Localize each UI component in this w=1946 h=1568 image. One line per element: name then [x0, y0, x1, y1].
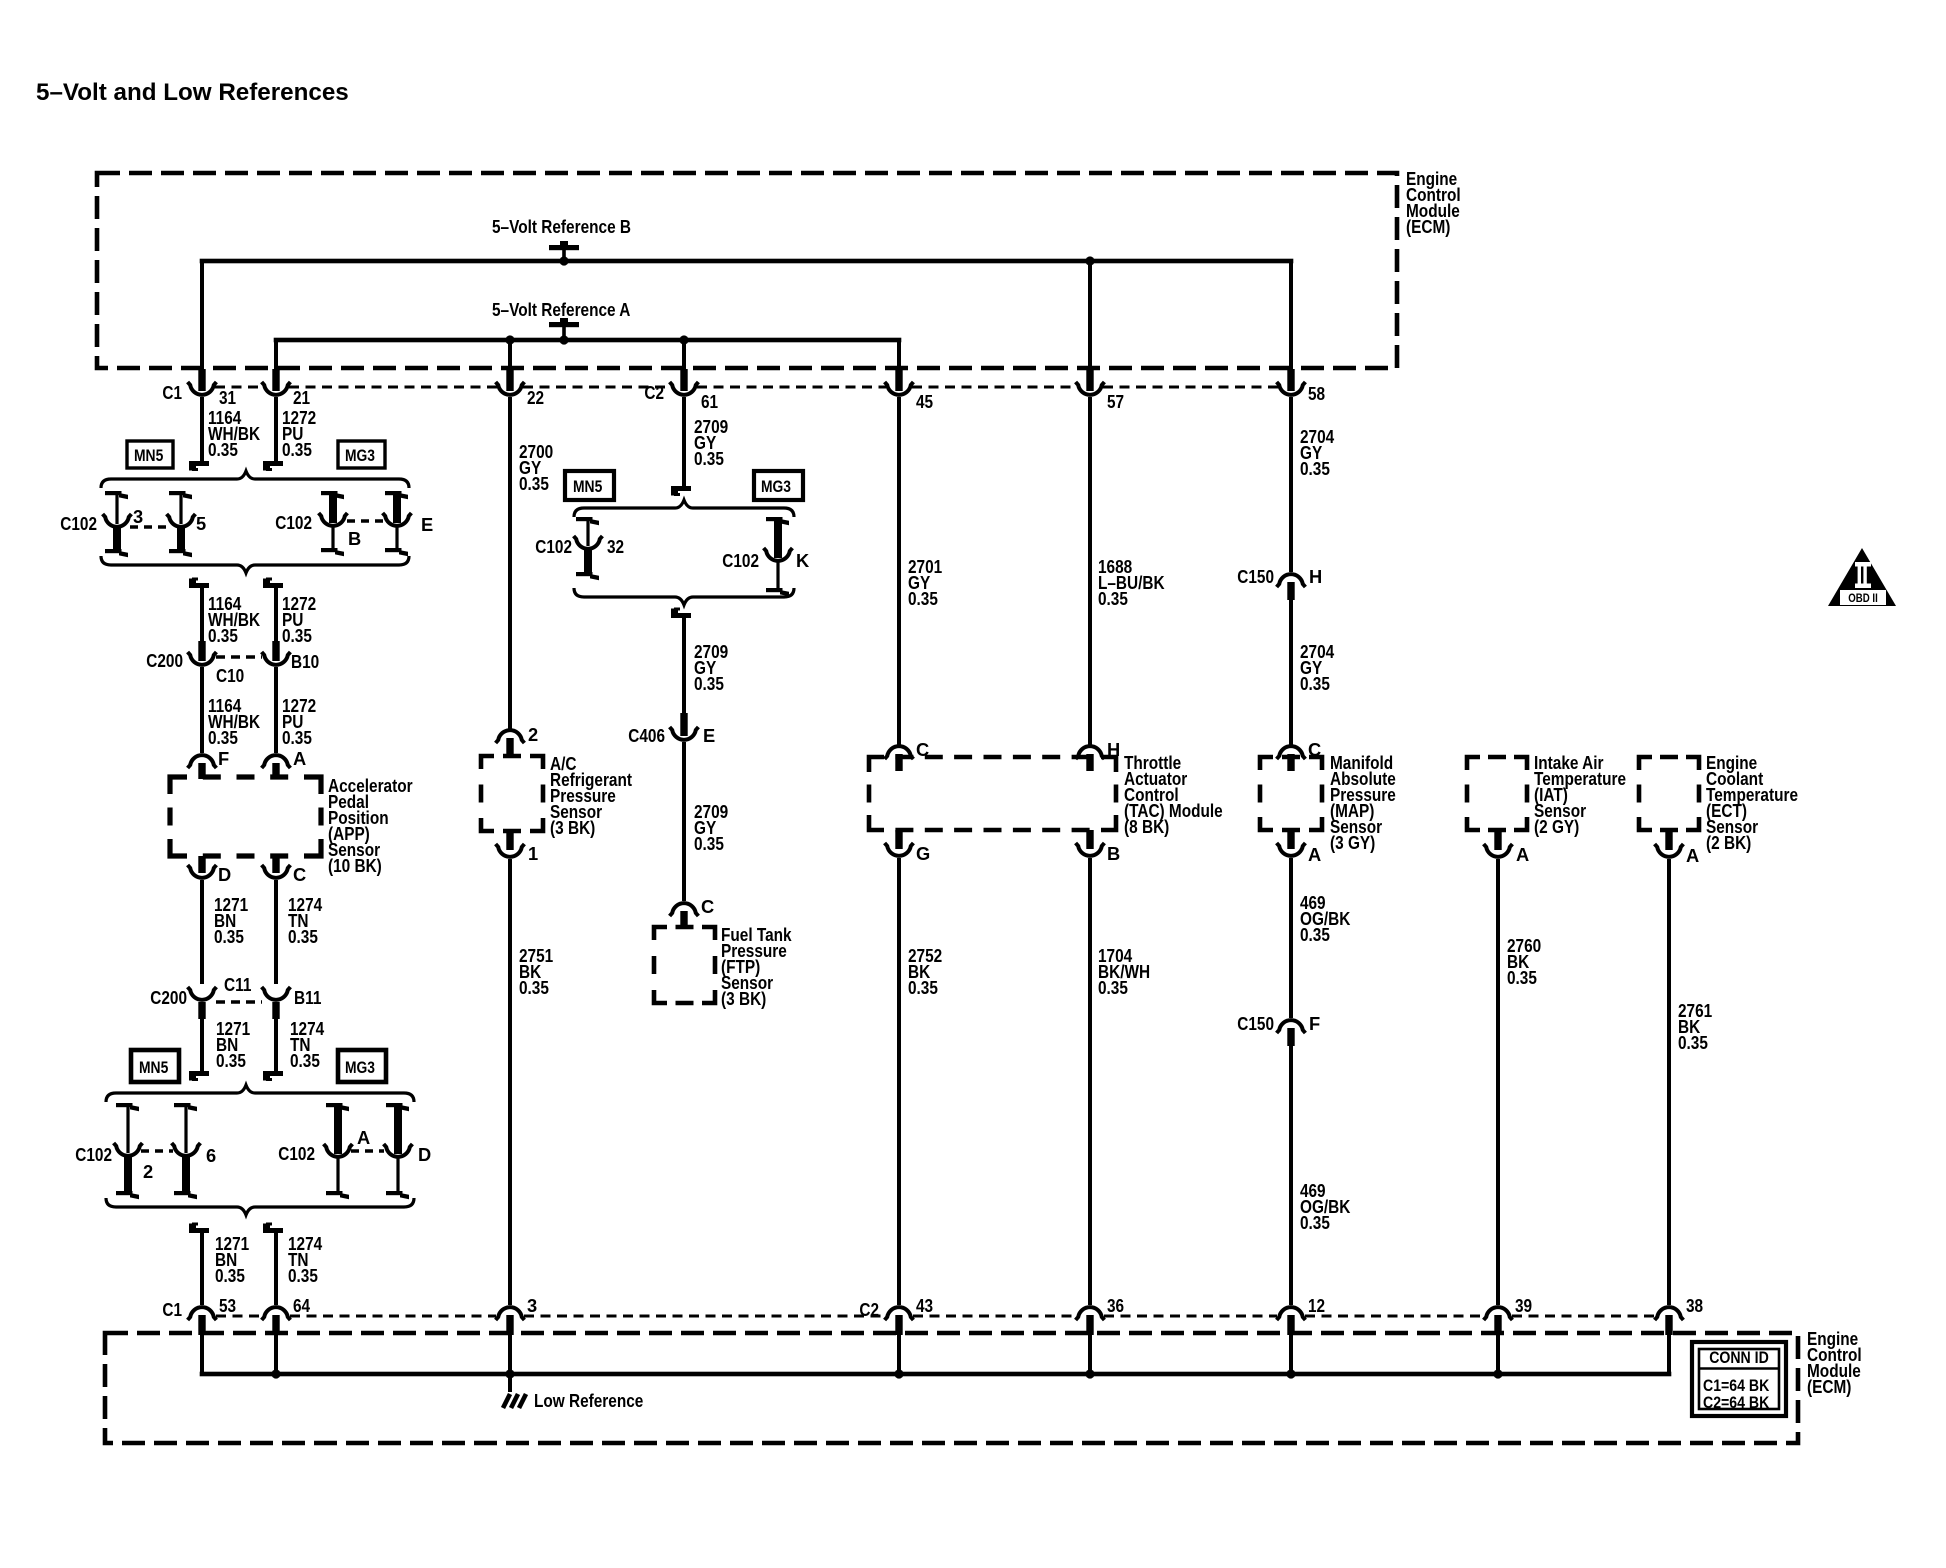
- wire 2704 to MAP sensor: [1289, 600, 1293, 745]
- svg-text:38: 38: [1686, 1295, 1703, 1316]
- APP sensor pin D terminal: [198, 856, 205, 873]
- svg-text:C150: C150: [1237, 566, 1274, 587]
- intake air temperature sensor box: [1467, 757, 1527, 830]
- APP sensor pin F terminal: [188, 755, 217, 768]
- svg-text:C102: C102: [60, 513, 97, 534]
- junction on ref B at wire 57: [1085, 256, 1094, 265]
- svg-text:C406: C406: [628, 725, 665, 746]
- svg-text:53: 53: [219, 1295, 236, 1316]
- wire: ref B drop to pin 57: [1088, 261, 1092, 371]
- ECM pin 61 terminal (top): [680, 369, 687, 391]
- wire 2709 below C102 group: [671, 613, 691, 618]
- ECM C1/C2 connector face (dotted line, top): [215, 386, 263, 389]
- svg-text:E: E: [421, 514, 433, 535]
- svg-text:0.35: 0.35: [1300, 924, 1330, 945]
- svg-text:C2=64 BK: C2=64 BK: [1703, 1393, 1769, 1412]
- ECM pin 53 terminal (bottom): [188, 1307, 217, 1320]
- wire 1272 from pin 21: [274, 397, 278, 461]
- svg-text:OBD II: OBD II: [1848, 593, 1878, 605]
- ECM pin 39 terminal (bottom): [1484, 1307, 1513, 1320]
- IAT sensor pin A terminal: [1494, 830, 1501, 850]
- ECM C1/C2 connector face (dotted line, bottom): [216, 1315, 262, 1318]
- svg-text:C150: C150: [1237, 1013, 1274, 1034]
- svg-text:C2: C2: [644, 382, 664, 403]
- svg-text:(2 GY): (2 GY): [1534, 816, 1579, 837]
- svg-text:0.35: 0.35: [694, 673, 724, 694]
- svg-text:3: 3: [133, 506, 143, 527]
- TAC module pin B terminal: [1086, 830, 1093, 849]
- svg-text:C102: C102: [722, 550, 759, 571]
- svg-text:0.35: 0.35: [282, 439, 312, 460]
- C102 pass-through terminal pin 6: [174, 1103, 191, 1107]
- connector group brace (bottom, C102 upper): [101, 556, 409, 573]
- svg-text:0.35: 0.35: [208, 727, 238, 748]
- wire 1274 to lower C102 group: [274, 1019, 278, 1071]
- wire 469 from MAP pin A: [1289, 858, 1293, 1018]
- wire 1164 below C102 group: [189, 583, 209, 588]
- svg-text:12: 12: [1308, 1295, 1325, 1316]
- wire 1164 to APP sensor: [200, 667, 204, 753]
- svg-text:(3 GY): (3 GY): [1330, 832, 1375, 853]
- ECM pin 38 terminal (bottom): [1655, 1307, 1684, 1320]
- svg-text:0.35: 0.35: [288, 926, 318, 947]
- svg-text:C1: C1: [162, 1299, 182, 1320]
- wire 2700 from pin 22: [508, 397, 512, 729]
- svg-text:(10 BK): (10 BK): [328, 855, 382, 876]
- ECM module box (top): [97, 173, 1397, 368]
- svg-text:B10: B10: [291, 651, 319, 672]
- connector group brace (top, C102 upper): [101, 471, 409, 488]
- svg-text:64: 64: [293, 1295, 311, 1316]
- wire 1274 from APP pin C: [274, 880, 278, 984]
- fuel tank pressure sensor box: [654, 927, 715, 1003]
- ECM pin 31 terminal (top): [198, 369, 205, 391]
- svg-text:C1: C1: [162, 382, 182, 403]
- wire: low reference bus: [200, 1372, 1672, 1377]
- svg-text:CONN ID: CONN ID: [1709, 1348, 1769, 1367]
- svg-text:MG3: MG3: [345, 1059, 375, 1077]
- svg-text:36: 36: [1107, 1295, 1124, 1316]
- wire 2704 from pin 58: [1289, 397, 1293, 572]
- wire 2751 from A/C sensor: [508, 859, 512, 1305]
- svg-text:0.35: 0.35: [1300, 458, 1330, 479]
- harness code box MG3 (lower): [338, 1050, 386, 1082]
- C102 pin B link: [347, 519, 384, 522]
- svg-text:C10: C10: [216, 665, 244, 686]
- A/C sensor pin 1 terminal: [506, 831, 513, 850]
- wire: ref B drop to pin 31: [200, 261, 204, 371]
- svg-text:C: C: [293, 864, 306, 885]
- svg-text:(ECM): (ECM): [1807, 1376, 1851, 1397]
- svg-text:MN5: MN5: [139, 1059, 168, 1077]
- connector C406 pin E terminal: [680, 713, 687, 736]
- svg-text:Low Reference: Low Reference: [534, 1390, 643, 1411]
- svg-text:(2 BK): (2 BK): [1706, 832, 1751, 853]
- wire: ref A drop to pin 21: [274, 340, 278, 371]
- connector C200 pin B10 terminal: [272, 641, 279, 661]
- harness code box MN5: [127, 441, 173, 468]
- C102 pin 2 link: [141, 1149, 173, 1152]
- svg-text:0.35: 0.35: [519, 473, 549, 494]
- connector C150 pin H terminal: [1277, 574, 1306, 587]
- APP sensor pin C terminal: [272, 856, 279, 873]
- wire: ref A drop to pin 22: [508, 340, 512, 371]
- svg-text:F: F: [1309, 1013, 1320, 1034]
- svg-text:0.35: 0.35: [282, 625, 312, 646]
- svg-text:32: 32: [607, 536, 624, 557]
- C102 pass-through terminal pin 32: [576, 517, 593, 521]
- connector C200 pin C11 terminal: [188, 987, 217, 1000]
- svg-text:31: 31: [219, 387, 236, 408]
- harness code box MN5 (lower): [131, 1050, 179, 1082]
- ECM pin 21 terminal (top): [272, 369, 279, 391]
- svg-text:0.35: 0.35: [1300, 673, 1330, 694]
- MAP sensor pin A terminal: [1287, 830, 1294, 849]
- svg-text:0.35: 0.35: [290, 1050, 320, 1071]
- wire from pin 39 to low reference bus: [1496, 1334, 1500, 1374]
- harness code box MN5 (middle): [565, 471, 614, 500]
- connector C200 pin C10-left terminal: [198, 641, 205, 661]
- wire 1688 from pin 57: [1088, 397, 1092, 745]
- connector group brace (top, C102 middle): [574, 500, 794, 517]
- wire 2761 from ECT sensor: [1667, 859, 1671, 1305]
- svg-text:C200: C200: [150, 987, 187, 1008]
- wire 1271 to ECM pin 53: [189, 1228, 209, 1233]
- svg-text:D: D: [218, 864, 231, 885]
- svg-text:2: 2: [143, 1161, 153, 1182]
- connector group brace (bottom, C102 lower): [106, 1198, 414, 1215]
- svg-text:0.35: 0.35: [1507, 967, 1537, 988]
- svg-text:5–Volt Reference A: 5–Volt Reference A: [492, 299, 630, 320]
- C102 pass-through terminal pin K: [766, 517, 783, 521]
- connector C150 pin F terminal: [1277, 1020, 1306, 1033]
- svg-text:2: 2: [528, 724, 538, 745]
- C102 pass-through terminal pin D: [386, 1103, 403, 1107]
- wire 2760 from IAT sensor: [1496, 859, 1500, 1305]
- svg-text:A: A: [1308, 844, 1321, 865]
- C200 C10 link: [216, 655, 262, 658]
- wire 2709 from pin 61: [682, 397, 686, 486]
- svg-text:MN5: MN5: [134, 447, 163, 465]
- wire from pin 43 to low reference bus: [897, 1334, 901, 1374]
- svg-text:D: D: [418, 1144, 431, 1165]
- svg-text:5–Volt and Low References: 5–Volt and Low References: [36, 79, 349, 106]
- wire from pin 64 to low reference bus: [274, 1334, 278, 1374]
- svg-text:(3 BK): (3 BK): [550, 817, 595, 838]
- wire 2709 to FTP sensor: [682, 742, 686, 901]
- svg-text:MN5: MN5: [573, 478, 602, 496]
- svg-text:0.35: 0.35: [216, 1050, 246, 1071]
- svg-text:MG3: MG3: [761, 478, 791, 496]
- svg-text:5: 5: [196, 513, 206, 534]
- wire from pin 12 to low reference bus: [1289, 1334, 1293, 1374]
- svg-text:6: 6: [206, 1145, 216, 1166]
- svg-text:5–Volt Reference B: 5–Volt Reference B: [492, 216, 631, 237]
- svg-text:1: 1: [528, 843, 538, 864]
- svg-text:45: 45: [916, 391, 933, 412]
- ECM pin 36 terminal (bottom): [1076, 1307, 1105, 1320]
- A/C sensor pin 2 terminal: [496, 730, 525, 743]
- TAC module pin C terminal: [885, 746, 914, 759]
- wire 2701 from pin 45: [897, 397, 901, 745]
- svg-text:K: K: [796, 550, 810, 571]
- svg-text:0.35: 0.35: [694, 448, 724, 469]
- wire from pin 3 to low reference bus: [508, 1334, 512, 1392]
- svg-text:C102: C102: [278, 1143, 315, 1164]
- wire: 5-Volt Reference B bus: [200, 259, 1294, 264]
- harness code box MG3 (middle): [754, 471, 803, 500]
- connector group brace (bottom, C102 middle): [574, 588, 794, 605]
- C102 pass-through terminal pin B: [321, 491, 338, 495]
- reference A tap symbol: [560, 318, 568, 323]
- wire 469 to ECM pin 12: [1289, 1046, 1293, 1305]
- APP sensor box: [170, 777, 321, 856]
- svg-text:A: A: [1686, 845, 1699, 866]
- ECM pin 57 terminal (top): [1086, 369, 1093, 391]
- svg-text:0.35: 0.35: [214, 926, 244, 947]
- ECM pin 64 terminal (bottom): [262, 1307, 291, 1320]
- wire from pin 53 to low reference bus: [200, 1334, 204, 1374]
- svg-text:0.35: 0.35: [1098, 588, 1128, 609]
- wire 1272 below C102 group: [263, 583, 283, 588]
- svg-text:A: A: [293, 748, 306, 769]
- svg-text:0.35: 0.35: [208, 625, 238, 646]
- svg-text:22: 22: [527, 387, 544, 408]
- svg-text:0.35: 0.35: [1098, 977, 1128, 998]
- engine coolant temperature sensor box: [1639, 757, 1699, 830]
- svg-text:G: G: [916, 843, 930, 864]
- wire 1271 to lower C102 group: [200, 1019, 204, 1071]
- svg-text:58: 58: [1308, 383, 1325, 404]
- MAP sensor pin C terminal: [1277, 746, 1306, 759]
- svg-text:61: 61: [701, 391, 718, 412]
- svg-text:0.35: 0.35: [282, 727, 312, 748]
- svg-text:A: A: [357, 1127, 370, 1148]
- svg-text:43: 43: [916, 1295, 933, 1316]
- TAC module pin G terminal: [895, 830, 902, 849]
- svg-text:57: 57: [1107, 391, 1124, 412]
- svg-text:3: 3: [527, 1295, 537, 1316]
- svg-text:C: C: [701, 896, 714, 917]
- wire: ref B drop to pin 58: [1289, 261, 1293, 371]
- C102 pass-through terminal pin A: [326, 1103, 343, 1107]
- svg-text:0.35: 0.35: [694, 833, 724, 854]
- C200 C11 link: [216, 1000, 262, 1003]
- ECM pin 43 terminal (bottom): [885, 1307, 914, 1320]
- wire from pin 38 to low reference bus: [1667, 1334, 1671, 1374]
- svg-text:C102: C102: [535, 536, 572, 557]
- svg-text:(3 BK): (3 BK): [721, 988, 766, 1009]
- connector group brace (top, C102 lower): [106, 1085, 414, 1102]
- ECM pin 3 terminal (bottom): [496, 1307, 525, 1320]
- C102 pass-through terminal pin 5: [169, 491, 186, 495]
- ECM pin 22 terminal (top): [506, 369, 513, 391]
- reference B tap symbol: [560, 241, 568, 246]
- svg-text:B: B: [348, 528, 361, 549]
- svg-text:C11: C11: [224, 974, 251, 995]
- svg-text:0.35: 0.35: [908, 588, 938, 609]
- wire 1274 to ECM pin 64: [263, 1228, 283, 1233]
- svg-text:A: A: [1516, 844, 1529, 865]
- svg-text:E: E: [703, 725, 715, 746]
- ECM module box (bottom): [105, 1333, 1798, 1443]
- wire 1272 to APP sensor: [274, 667, 278, 753]
- ECM pin 58 terminal (top): [1287, 369, 1294, 391]
- svg-text:21: 21: [293, 387, 310, 408]
- svg-text:C2: C2: [859, 1299, 879, 1320]
- svg-text:B11: B11: [294, 987, 321, 1008]
- C102 pin 3 link: [130, 525, 168, 528]
- svg-text:(ECM): (ECM): [1406, 216, 1450, 237]
- CONN ID table: [1692, 1342, 1786, 1416]
- TAC module pin H terminal: [1076, 746, 1105, 759]
- svg-text:C102: C102: [75, 1144, 112, 1165]
- svg-text:0.35: 0.35: [208, 439, 238, 460]
- OBD II symbol: [1828, 548, 1896, 606]
- wire: 5-Volt Reference A bus: [274, 338, 902, 343]
- wire 2752 from TAC pin G: [897, 858, 901, 1305]
- svg-text:0.35: 0.35: [908, 977, 938, 998]
- manifold absolute pressure sensor box: [1260, 757, 1322, 830]
- FTP sensor pin C terminal: [670, 903, 699, 916]
- svg-text:C200: C200: [146, 650, 183, 671]
- harness code box MG3 (upper): [338, 441, 385, 468]
- svg-text:MG3: MG3: [345, 447, 375, 465]
- svg-text:B: B: [1107, 843, 1120, 864]
- junction on ref A at wire 22: [505, 335, 514, 344]
- wire from pin 36 to low reference bus: [1088, 1334, 1092, 1374]
- C102 pass-through terminal pin 3: [105, 491, 122, 495]
- junction on ref A at wire 61: [679, 335, 688, 344]
- wire 1164 from pin 31: [200, 397, 204, 461]
- svg-text:0.35: 0.35: [288, 1265, 318, 1286]
- C102 pin A link: [351, 1149, 384, 1152]
- wire 1271 from APP pin D: [200, 880, 204, 984]
- connector C200 pin B11 terminal: [262, 987, 291, 1000]
- ECM pin 12 terminal (bottom): [1277, 1307, 1306, 1320]
- wire: ref A drop to pin 61: [682, 340, 686, 371]
- svg-text:0.35: 0.35: [519, 977, 549, 998]
- ECM pin 45 terminal (top): [895, 369, 902, 391]
- svg-text:0.35: 0.35: [215, 1265, 245, 1286]
- svg-text:H: H: [1309, 566, 1322, 587]
- svg-text:F: F: [218, 748, 229, 769]
- APP sensor pin A terminal: [262, 755, 291, 768]
- wire 1704 from TAC pin B: [1088, 858, 1092, 1305]
- ground symbol (low reference): [503, 1394, 510, 1408]
- throttle actuator control module box: [869, 757, 1116, 830]
- C102 pass-through terminal pin 2: [116, 1103, 133, 1107]
- C102 pass-through terminal pin E: [385, 491, 402, 495]
- svg-text:(8 BK): (8 BK): [1124, 816, 1169, 837]
- svg-text:0.35: 0.35: [1300, 1212, 1330, 1233]
- svg-text:0.35: 0.35: [1678, 1032, 1708, 1053]
- A/C refrigerant pressure sensor box: [481, 756, 543, 831]
- svg-text:39: 39: [1515, 1295, 1532, 1316]
- svg-text:C102: C102: [275, 512, 312, 533]
- wire: ref A drop to pin 45: [897, 340, 901, 371]
- ECT sensor pin A terminal: [1665, 830, 1672, 850]
